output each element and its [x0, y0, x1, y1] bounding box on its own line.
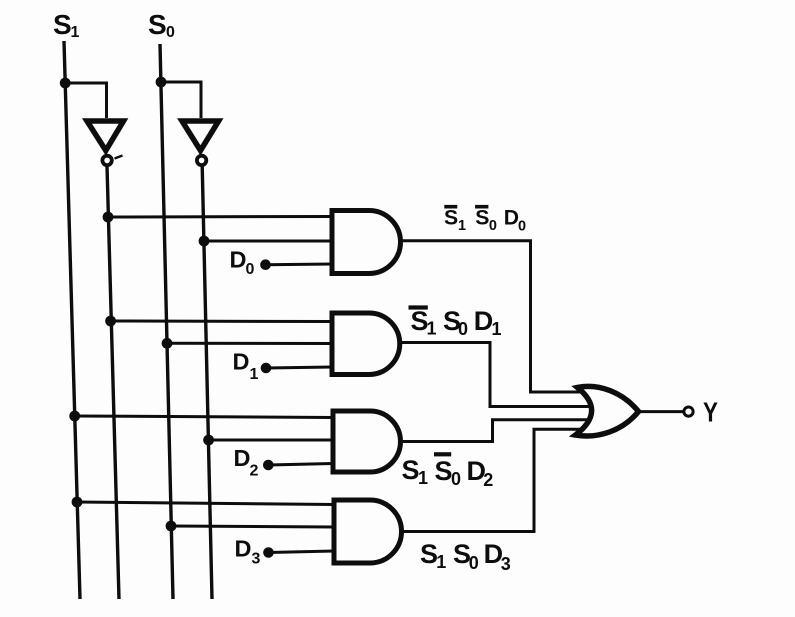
svg-text:1: 1 — [71, 24, 80, 41]
label S1-bar S0-bar D0 — [444, 205, 526, 235]
wire S0-bar vertical bus — [202, 166, 212, 599]
svg-text:1: 1 — [418, 468, 428, 488]
wire D1 to AND U4 input 3 — [266, 367, 333, 368]
wire S0 to AND U4 input 2 — [167, 342, 333, 345]
svg-text:Y: Y — [703, 397, 718, 428]
node D2 input terminal — [263, 460, 274, 471]
svg-text:0: 0 — [489, 218, 497, 234]
wire S0-bar to AND U3 input 2 — [204, 240, 333, 243]
svg-text:S: S — [148, 9, 167, 40]
node junction S0-bar to AND U5 — [203, 435, 214, 446]
wire AND U5 output to OR U7 input 3 — [401, 420, 591, 442]
wire AND U3 output to OR U7 input 1 — [401, 241, 585, 392]
node D0 input terminal — [260, 259, 271, 270]
wire OR U7 output to Y terminal — [639, 410, 685, 413]
label S1 S0 D3 — [420, 539, 511, 574]
label S1 — [53, 9, 80, 41]
svg-text:S: S — [444, 207, 458, 230]
svg-text:D: D — [474, 306, 494, 336]
svg-text:D: D — [235, 536, 252, 562]
wire S1-bar to AND U4 input 1 — [111, 320, 333, 324]
node output terminal Y — [684, 407, 693, 416]
svg-text:D: D — [504, 207, 519, 230]
node junction S1 to AND U5 — [69, 411, 80, 422]
label S0 — [148, 9, 175, 41]
label D0 — [230, 247, 255, 279]
svg-text:1: 1 — [250, 366, 259, 383]
node junction S1 to inverter U1 — [60, 78, 71, 89]
wire S1-bar to AND U3 input 1 — [108, 215, 333, 219]
svg-text:S: S — [53, 9, 72, 40]
wire AND U6 output to OR U7 input 4 — [401, 429, 583, 531]
node junction S0 to AND U6 — [166, 521, 177, 532]
svg-text:S: S — [435, 456, 453, 486]
wire S0 vertical bus — [160, 44, 173, 599]
node junction S1-bar to AND U3 — [103, 212, 114, 223]
label D2 — [234, 445, 259, 480]
svg-text:1: 1 — [458, 218, 466, 234]
wire D2 to AND U5 input 3 — [268, 464, 333, 466]
node D1 input terminal — [261, 363, 272, 374]
svg-text:2: 2 — [483, 470, 493, 490]
wire D0 to AND U3 input 3 — [266, 263, 334, 267]
svg-text:0: 0 — [246, 261, 255, 278]
node D3 input terminal — [263, 547, 274, 558]
svg-text:2: 2 — [250, 463, 259, 480]
inverter U2 (S0-bar) — [182, 121, 219, 165]
wire S1 vertical bus — [64, 41, 80, 599]
svg-text:0: 0 — [458, 319, 468, 339]
wire S1 to AND U6 input 1 — [77, 502, 334, 505]
svg-text:1: 1 — [436, 552, 446, 572]
node junction S1-bar to AND U4 — [105, 316, 116, 327]
wire S0 junction to inverter U2 input — [161, 82, 201, 118]
svg-text:1: 1 — [427, 319, 437, 339]
svg-text:3: 3 — [252, 551, 261, 568]
svg-text:0: 0 — [166, 24, 175, 41]
label S1-bar S0 D1 — [409, 305, 502, 339]
wire S1 junction to inverter U1 input — [65, 83, 106, 118]
node junction S1 to AND U6 — [72, 497, 83, 508]
inverter U1 (S1-bar) — [87, 121, 124, 165]
wire AND U4 output to OR U7 input 2 — [400, 343, 590, 407]
OR gate U7 — [576, 386, 639, 436]
svg-text:S: S — [475, 207, 489, 230]
wire S0 to AND U6 input 2 — [171, 526, 334, 527]
svg-text:0: 0 — [451, 469, 461, 489]
label S1 S0-bar D2 — [402, 452, 494, 490]
svg-text:1: 1 — [492, 319, 502, 339]
node junction S0 to AND U4 — [162, 338, 173, 349]
node junction S0 to inverter U2 — [156, 77, 167, 88]
wire S1 to AND U5 input 1 — [75, 416, 333, 418]
label D3 — [235, 536, 261, 568]
AND gate U5 — [333, 411, 400, 472]
svg-text:D: D — [233, 349, 250, 375]
svg-text:S: S — [402, 455, 420, 485]
svg-text:D: D — [230, 247, 247, 273]
label D1 — [233, 349, 259, 384]
svg-text:3: 3 — [501, 554, 511, 574]
svg-text:D: D — [234, 445, 251, 471]
AND gate U3 — [332, 211, 401, 274]
node junction S0-bar to AND U3 — [199, 236, 210, 247]
AND gate U6 — [334, 500, 402, 563]
label Y — [703, 397, 718, 428]
AND gate U4 — [332, 313, 400, 375]
wire D3 to AND U6 input 3 — [269, 551, 335, 553]
wire S0-bar to AND U5 input 2 — [209, 439, 333, 442]
wire S1-bar vertical bus — [107, 166, 119, 599]
svg-text:0: 0 — [469, 553, 479, 573]
svg-text:0: 0 — [518, 219, 526, 235]
